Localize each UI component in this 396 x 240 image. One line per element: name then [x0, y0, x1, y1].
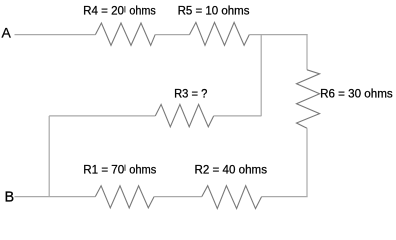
svg-text:A: A [2, 25, 12, 41]
wire R3 to junction vertical [214, 115, 262, 117]
wire R5 to top-right corner [249, 34, 307, 36]
wire node A to R4 [15, 34, 96, 36]
svg-text:R2 = 40 ohms: R2 = 40 ohms [195, 163, 268, 177]
wire node B to R1 [15, 196, 96, 198]
wire left vertical [48, 116, 50, 197]
resistor R1 [95, 186, 154, 208]
wire junction drop to R3 row [260, 35, 262, 117]
svg-text:R5 = 10 ohms: R5 = 10 ohms [178, 4, 250, 18]
wire R1 to R2 [154, 196, 202, 198]
wire right vertical lower [306, 128, 308, 196]
resistor R3 [155, 104, 213, 126]
wire R2 to bottom-right corner [262, 196, 308, 198]
svg-text:R1 = 70: R1 = 70 [83, 162, 124, 176]
svg-text:R3 = ?: R3 = ? [174, 87, 207, 101]
svg-text:ohms: ohms [129, 162, 156, 176]
resistor R6 [297, 70, 320, 128]
svg-text:ohms: ohms [129, 4, 155, 18]
svg-text:B: B [5, 190, 15, 206]
svg-text:R4 = 20: R4 = 20 [83, 4, 124, 18]
svg-text:R6 = 30 ohms: R6 = 30 ohms [320, 86, 393, 100]
wire R3 row left segment [49, 115, 155, 117]
resistor R2 [202, 186, 262, 209]
wire R4 to R5 [155, 34, 189, 36]
wire right vertical upper [306, 34, 308, 70]
resistor R4 [95, 23, 155, 45]
resistor R5 [190, 22, 250, 45]
